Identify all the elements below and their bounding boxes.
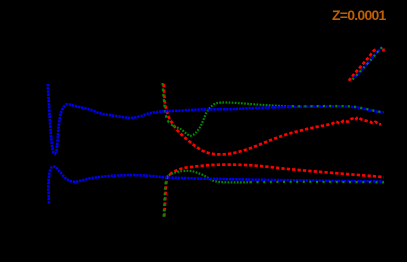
red dot: tip of rising line [382,49,385,52]
green dashes mixed into rising line [353,47,383,80]
label Z=0.0001 [332,7,386,23]
red curve: bottom panel dashed [164,165,384,217]
green curve: bottom panel vertical drop (alternating over red) [164,178,167,217]
green dashes mixed into top plateau line [292,106,384,112]
green dashes mixed into bottom plateau line [250,181,384,184]
red curve: top panel dashed (drop, dip at x~219, wiggly rise) [164,84,381,154]
blue curve: bottom panel main [48,167,384,204]
red curve: top-right rising dashed [349,48,377,81]
green curve: top panel dip and rise to plateau [172,103,293,136]
blue curve: top-right rising line [352,47,382,80]
blue curve: top panel main [48,84,384,154]
green curve: top panel steep drop (alternating over red) [163,83,172,125]
green curve: bottom panel arc and plateau [167,171,250,183]
